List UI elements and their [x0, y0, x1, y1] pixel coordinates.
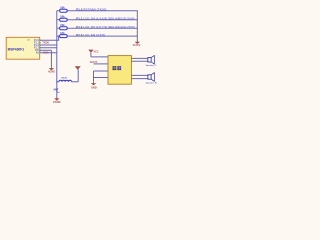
amplifier module U2: [108, 56, 131, 85]
wire vcc riser: [90, 53, 92, 57]
svg-text:ANT: ANT: [53, 89, 59, 92]
wire vertical pin1: [58, 36, 60, 41]
svg-text:Speaker_R: Speaker_R: [146, 82, 157, 85]
svg-text:VCC5V: VCC5V: [133, 45, 141, 47]
antenna ANT1: [75, 66, 81, 70]
ground AGND: [48, 67, 55, 74]
svg-text:AGND: AGND: [48, 71, 55, 74]
svg-text:MSP430F1: MSP430F1: [8, 48, 25, 52]
wire vertical pin5 to gnd: [50, 50, 52, 67]
svg-text:GND: GND: [91, 87, 97, 90]
svg-text:10k: 10k: [60, 31, 65, 35]
svg-text:10k: 10k: [60, 23, 65, 27]
wire spk1 plus: [131, 57, 148, 59]
svg-text:P1.1 LCD_D4 (1,4,6,8) SEG A/B/: P1.1 LCD_D4 (1,4,6,8) SEG A/B/C/D (5V0): [76, 17, 134, 21]
wire spk2 plus: [131, 74, 148, 76]
wire row1 right: [67, 10, 138, 12]
wire pin1: [40, 39, 59, 41]
wire amp L1: [91, 56, 108, 58]
speaker LS1: [146, 56, 157, 67]
wire amp L4: [94, 77, 109, 79]
wire row4 stub left: [57, 35, 60, 37]
svg-text:10k: 10k: [60, 15, 65, 19]
svg-text:10uH: 10uH: [61, 78, 67, 80]
wire pin4: [40, 47, 58, 49]
wire right bus vertical: [136, 11, 138, 41]
svg-text:P1.3 LCD_EN (3,6,8): P1.3 LCD_EN (3,6,8): [76, 33, 105, 37]
svg-text:TXD0: TXD0: [42, 40, 49, 44]
inductor L1: [59, 78, 72, 82]
svg-text:VCC: VCC: [93, 50, 98, 53]
ground PGND: [53, 97, 60, 104]
wire row3 stub left: [57, 27, 60, 29]
background: [0, 0, 159, 108]
wire coil left stub: [57, 81, 59, 83]
wire spk1 minus: [131, 60, 148, 62]
svg-text:PGND: PGND: [53, 101, 60, 104]
wire coil right: [72, 81, 79, 83]
speaker LS2: [146, 73, 157, 85]
resistor R3: [60, 23, 67, 30]
wire row1 stub left: [57, 10, 60, 12]
wire pin5: [40, 49, 52, 51]
resistor R1: [60, 6, 67, 13]
wire row2 stub left: [57, 19, 60, 21]
resistor R4: [60, 31, 67, 38]
power VCC amp: [88, 50, 98, 54]
svg-text:P1.2 LCD_D5 (2,5,7,9) SEG E/F/: P1.2 LCD_D5 (2,5,7,9) SEG E/F/G/H (5V0): [76, 25, 135, 29]
junction node coil: [56, 81, 58, 83]
wire pin3: [40, 44, 58, 46]
svg-text:10k: 10k: [60, 6, 65, 10]
ground GND amp: [91, 82, 97, 90]
wire spk2 minus: [131, 78, 148, 80]
wire amp L3: [94, 70, 109, 72]
wire pin6: [40, 52, 58, 54]
wire antenna stem: [77, 69, 79, 82]
svg-text:P1.0 RST/NMI (TXD0): P1.0 RST/NMI (TXD0): [76, 8, 106, 12]
wire amp L3-L4 vertical: [93, 71, 95, 82]
wire row2 right: [67, 19, 138, 21]
svg-text:Speaker_L: Speaker_L: [146, 64, 157, 67]
wire row4 right: [67, 35, 138, 37]
MCU U1: [6, 37, 40, 59]
resistor R2: [60, 15, 67, 22]
svg-text:AOUT: AOUT: [90, 60, 98, 64]
power arrow VCC right: [133, 41, 141, 47]
wire amp L2: [94, 63, 109, 65]
svg-text:AIN0: AIN0: [43, 50, 49, 54]
wire bus vertical main: [56, 11, 58, 98]
wire row3 right: [67, 27, 138, 29]
